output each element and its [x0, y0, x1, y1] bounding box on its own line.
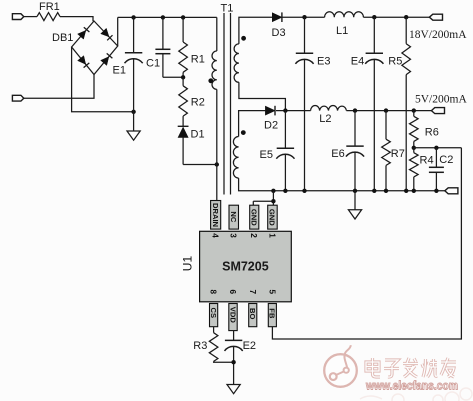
watermark text shao	[422, 359, 437, 377]
svg-text:L2: L2	[319, 113, 331, 125]
T1 secondary 2 phase dot	[241, 130, 246, 135]
svg-text:7: 7	[248, 290, 257, 295]
svg-text:8: 8	[209, 290, 218, 295]
wire feedback to FB pin	[272, 148, 461, 339]
svg-text:L1: L1	[336, 25, 348, 37]
capacitor E1	[133, 17, 135, 52]
output terminal 18V	[429, 14, 442, 20]
svg-text:5V/200mA: 5V/200mA	[415, 93, 467, 105]
svg-text:C2: C2	[439, 154, 453, 166]
pin 8 CS box	[210, 304, 218, 327]
svg-text:R2: R2	[191, 97, 205, 109]
capacitor E2	[233, 331, 235, 341]
svg-text:FR1: FR1	[39, 1, 60, 13]
svg-text:2: 2	[249, 233, 258, 238]
wire J1 to FR1	[24, 16, 37, 18]
input terminal J2 (neutral)	[12, 95, 23, 101]
node R1/R2	[181, 75, 185, 79]
wire 5V rail	[346, 110, 431, 112]
capacitor C2	[435, 148, 437, 168]
node R4 bottom	[412, 189, 416, 193]
T1 primary phase dot	[208, 78, 213, 83]
node secondary return	[271, 189, 275, 193]
watermark text dian	[366, 358, 380, 377]
ground (secondary)	[348, 210, 361, 219]
svg-text:5: 5	[267, 290, 276, 295]
node R1 top	[181, 15, 185, 19]
svg-text:DB1: DB1	[52, 32, 73, 44]
svg-text:R7: R7	[391, 148, 405, 160]
inductor L1	[325, 12, 364, 17]
watermark text fa	[403, 358, 418, 377]
svg-text:1: 1	[267, 233, 276, 238]
svg-text:R5: R5	[388, 56, 402, 68]
wire C1 to R1/R2 node	[163, 76, 183, 78]
svg-text:R6: R6	[425, 127, 439, 139]
svg-text:U1: U1	[181, 256, 195, 272]
svg-text:GND: GND	[250, 209, 259, 226]
wire divider to C2/FB	[414, 147, 462, 149]
svg-text:C1: C1	[146, 58, 160, 70]
node E4 bottom	[372, 189, 376, 193]
node primary ground	[131, 110, 135, 114]
node stacked winding tap	[283, 108, 287, 112]
node feedback divider	[412, 146, 416, 150]
T1 secondary 1 winding	[239, 17, 272, 44]
svg-text:D3: D3	[272, 27, 286, 39]
pin 3 NC box	[229, 205, 239, 229]
capacitor E5	[284, 111, 286, 149]
ground (primary)	[127, 131, 140, 140]
T1 secondary 1 phase dot	[241, 36, 246, 41]
pin 7 BO box	[249, 304, 257, 327]
svg-text:E4: E4	[351, 56, 364, 68]
svg-text:CS: CS	[209, 308, 218, 319]
svg-text:R3: R3	[193, 340, 207, 352]
node GND pin junction	[271, 199, 275, 203]
node E3 top	[302, 15, 306, 19]
node C2 top	[434, 146, 438, 150]
capacitor C1	[162, 17, 164, 49]
svg-text:NC: NC	[229, 211, 238, 222]
fusible resistor FR1	[37, 13, 60, 21]
svg-text:VDD: VDD	[228, 307, 237, 324]
svg-text:R1: R1	[191, 54, 205, 66]
bridge diode left-bottom	[78, 56, 86, 65]
capacitor E6	[354, 111, 356, 147]
watermark logo circle	[324, 345, 357, 387]
svg-text:T1: T1	[221, 3, 234, 15]
watermark ghost	[360, 388, 472, 401]
pin 1 GND box	[268, 205, 278, 229]
watermark text you	[441, 358, 456, 377]
svg-text:R4: R4	[420, 155, 434, 167]
wire top rail (DC bus)	[118, 16, 217, 18]
svg-text:18V/200mA: 18V/200mA	[409, 29, 467, 41]
watermark	[324, 345, 472, 401]
node R5 bottom	[404, 189, 408, 193]
watermark text zi	[384, 360, 399, 377]
wire to ground symbol	[133, 112, 135, 131]
svg-text:www.elecfans.com: www.elecfans.com	[365, 379, 458, 393]
transformer T1 core	[223, 13, 225, 195]
svg-text:E2: E2	[243, 340, 256, 352]
diode D3	[272, 13, 282, 22]
wire to secondary ground	[354, 191, 356, 210]
svg-text:DRAIN: DRAIN	[211, 203, 220, 227]
wire J2 to bridge bottom	[24, 75, 94, 99]
node R5 top	[404, 15, 408, 19]
resistor R1	[182, 17, 184, 42]
inductor L2	[311, 106, 347, 111]
resistor R2	[182, 77, 184, 86]
ground (IC)	[227, 385, 240, 394]
input terminal J1 (line)	[12, 14, 23, 20]
svg-text:E3: E3	[317, 56, 330, 68]
svg-text:E1: E1	[113, 65, 126, 77]
svg-text:E5: E5	[260, 149, 273, 161]
node C1 top	[161, 15, 165, 19]
output terminal 0V	[445, 188, 458, 194]
wire FR1 to bridge top	[60, 17, 93, 22]
svg-text:3: 3	[229, 233, 238, 238]
op-amp U1 body (SM7205)	[200, 231, 292, 301]
T1 primary winding	[216, 17, 218, 51]
resistor R4	[413, 148, 415, 153]
wire return to GND pins	[272, 191, 274, 201]
wire D1 to drain node	[183, 164, 217, 166]
svg-text:BO: BO	[248, 308, 257, 319]
capacitor E4	[373, 17, 375, 53]
pin 5 FB box	[268, 304, 276, 327]
node E4 top	[372, 15, 376, 19]
diode D2	[265, 106, 275, 115]
bridge rectifier DB1 outline	[72, 21, 118, 75]
bridge diode bottom-right	[101, 57, 109, 66]
resistor R6	[413, 111, 415, 117]
wire bridge DC+ to top rail	[117, 17, 119, 46]
node R7 top	[384, 108, 388, 112]
node R3/E2	[231, 360, 235, 364]
output terminal 5V	[431, 108, 444, 114]
svg-text:SM7205: SM7205	[222, 260, 269, 274]
node E5 bottom	[283, 189, 287, 193]
resistor R7	[385, 111, 387, 140]
node E3 bottom	[302, 189, 306, 193]
T1 secondary 2 winding	[239, 111, 266, 137]
bridge diode top-right	[101, 28, 109, 37]
node E1 top	[131, 15, 135, 19]
svg-text:D2: D2	[264, 120, 278, 132]
svg-text:4: 4	[211, 233, 220, 238]
pin 4 DRAIN box	[211, 201, 221, 230]
node E6 top	[353, 108, 357, 112]
resistor R3	[213, 327, 215, 333]
capacitor E3	[304, 17, 306, 53]
node R7 bottom	[384, 189, 388, 193]
wire bridge DC- down	[72, 47, 134, 112]
node E6 bottom	[353, 189, 357, 193]
svg-text:D1: D1	[191, 129, 205, 141]
svg-text:FB: FB	[268, 308, 277, 319]
resistor R5	[405, 17, 407, 44]
node C2 bottom	[434, 189, 438, 193]
wire 18V rail	[363, 16, 429, 18]
pin 6 VDD box	[229, 304, 237, 331]
svg-text:E6: E6	[331, 148, 344, 160]
pin 2 GND box	[250, 205, 259, 229]
diode D1	[178, 125, 189, 127]
svg-text:GND: GND	[268, 209, 277, 226]
bridge diode left-top	[78, 31, 86, 40]
node drain	[215, 162, 219, 166]
node R6 top	[412, 108, 416, 112]
svg-text:6: 6	[228, 290, 237, 295]
